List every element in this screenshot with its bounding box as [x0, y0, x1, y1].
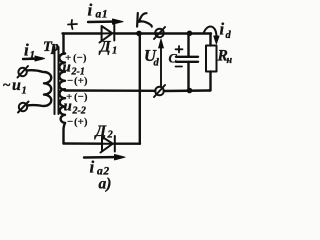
wire load top lead	[209, 34, 211, 46]
label u2-2	[64, 99, 86, 117]
plus mark near D1	[68, 20, 77, 29]
arrow id (curved into load)	[204, 26, 219, 43]
arrow Ud (voltage arrow)	[159, 39, 164, 86]
arrow i1	[23, 56, 45, 61]
transformer secondary winding u2-1	[59, 54, 65, 90]
transformer primary winding	[44, 72, 51, 106]
svg-text:−: −	[67, 75, 73, 87]
wire capacitor bottom lead	[187, 62, 189, 91]
transformer secondary winding u2-2	[60, 98, 65, 123]
wire D2 cathode to top bus (vertical)	[139, 34, 141, 144]
caption a)	[99, 176, 112, 193]
svg-text:(+): (+)	[74, 75, 88, 87]
svg-text:Тр: Тр	[43, 39, 59, 55]
arrow ia2	[84, 155, 125, 160]
svg-text:(+): (+)	[74, 116, 88, 128]
wire D2 branch horizontal	[64, 142, 141, 145]
diode D1	[100, 24, 115, 43]
label -(+) of u2-2	[67, 116, 88, 128]
svg-text:(−): (−)	[73, 52, 87, 64]
resistor Rn	[206, 46, 217, 72]
label plus of capacitor	[176, 46, 183, 53]
wire input top	[27, 70, 44, 72]
diode D2	[101, 136, 115, 153]
terminal input bottom	[18, 102, 29, 113]
transformer secondary center-tap loop	[60, 89, 66, 98]
wire load bottom lead	[209, 72, 211, 91]
svg-text:~: ~	[3, 78, 11, 93]
svg-text:и: и	[12, 77, 21, 94]
switch mark K	[137, 13, 152, 27]
label minus of capacitor	[176, 66, 183, 68]
svg-text:i: i	[220, 20, 225, 39]
junction node capacitor top	[187, 31, 193, 37]
svg-text:(−): (−)	[74, 91, 88, 103]
svg-text:d: d	[226, 30, 232, 41]
svg-text:d: d	[154, 58, 160, 69]
label -(+) of u2-1	[67, 75, 88, 87]
capacitor C plates	[176, 57, 198, 62]
wire secondary top to top bus	[64, 34, 66, 54]
svg-text:а1: а1	[96, 9, 109, 21]
svg-text:н: н	[227, 55, 233, 66]
label ia1	[88, 1, 109, 21]
label Tr (transformer)	[43, 39, 59, 55]
label id	[220, 20, 232, 42]
label Rn	[217, 48, 233, 67]
label ia2	[90, 158, 110, 178]
svg-text:и: и	[63, 60, 71, 76]
svg-text:2: 2	[107, 130, 114, 141]
label C	[169, 52, 178, 66]
svg-text:Д: Д	[98, 39, 112, 56]
svg-text:i: i	[90, 158, 95, 177]
label i1 (primary current)	[24, 41, 35, 62]
label D2	[94, 123, 114, 141]
label ~u1 (input voltage)	[3, 77, 27, 97]
label Ud	[144, 46, 160, 69]
terminal output top	[154, 27, 165, 39]
label u2-1	[63, 60, 85, 78]
svg-text:а): а)	[99, 176, 112, 193]
transformer core	[55, 47, 59, 114]
terminal input top	[18, 66, 29, 78]
junction node capacitor bottom	[187, 88, 193, 94]
svg-text:2-2: 2-2	[72, 106, 86, 117]
label D1	[98, 39, 117, 57]
svg-text:i: i	[24, 41, 29, 60]
terminal output bottom	[154, 85, 165, 97]
svg-text:и: и	[64, 99, 72, 115]
svg-text:i: i	[88, 1, 93, 20]
svg-text:1: 1	[112, 46, 117, 57]
wire secondary bottom to D2	[64, 123, 66, 144]
svg-text:С: С	[169, 52, 178, 66]
wire input bottom	[27, 104, 43, 107]
top bus wire	[63, 32, 212, 34]
bottom bus wire (center tap)	[65, 89, 210, 92]
svg-text:1: 1	[22, 86, 27, 97]
label +(-) of u2-2	[66, 91, 88, 103]
arrow ia1	[88, 19, 123, 24]
svg-text:−: −	[67, 116, 73, 128]
junction node D1 cathode	[136, 31, 142, 37]
label +(-) of u2-1	[65, 52, 87, 64]
svg-text:Д: Д	[94, 123, 108, 140]
wire capacitor top lead	[187, 34, 189, 57]
